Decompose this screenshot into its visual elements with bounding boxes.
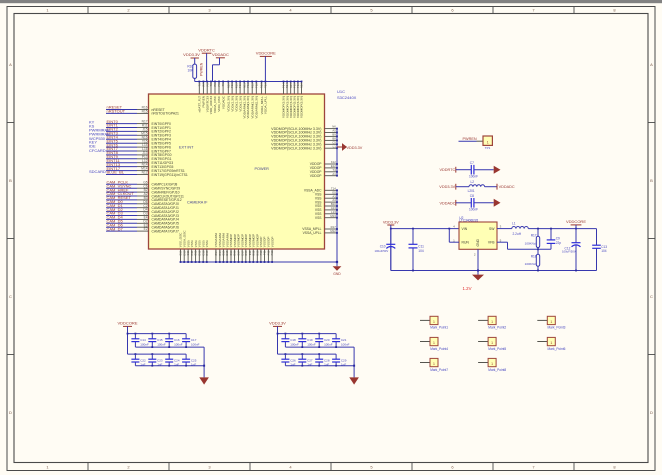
svg-text:GND: GND <box>476 238 480 246</box>
pin VSSiARM <box>218 233 222 263</box>
svg-text:10K: 10K <box>188 68 195 72</box>
pin VDDMOP(SCLK,100MHz 3.3V) <box>271 137 338 143</box>
power port VDDADC (top) <box>212 52 229 82</box>
testpoint TP1 <box>483 136 492 150</box>
pin 3 SW <box>489 225 512 231</box>
resistor R16 <box>187 64 196 81</box>
svg-text:VFB: VFB <box>488 241 495 245</box>
pin VDDMOP(3.3V) <box>296 81 300 118</box>
pin EINT11/GPG3 with net label EINT11 <box>106 158 173 165</box>
pin VSSMOP <box>233 234 237 263</box>
wire right VSS riser to ground bus <box>336 190 338 263</box>
pin EINT4/GPF4 with net label EINT4 <box>106 134 171 141</box>
svg-text:100KNcl: 100KNcl <box>525 241 537 245</box>
svg-text:VDD3.3V: VDD3.3V <box>183 52 200 57</box>
op regulator U2 LTC3406ES5 body <box>459 222 497 249</box>
svg-text:D: D <box>9 410 12 415</box>
pin VDDi(1.3V) <box>230 81 234 112</box>
pin VDDiARM(1.3V) <box>254 81 258 119</box>
power port VDDCORE (top) <box>256 50 276 81</box>
svg-text:CAM_D7: CAM_D7 <box>107 226 124 231</box>
pin VSSiARM <box>214 233 218 263</box>
svg-text:S3C2440X: S3C2440X <box>337 95 357 100</box>
wire VDD3.3V rail row1 top <box>277 333 337 335</box>
svg-text:RUN: RUN <box>462 241 470 245</box>
pin VSSMOP <box>237 234 241 263</box>
section label CAMERA IF <box>187 201 208 205</box>
capacitor C8 100nF <box>456 194 494 212</box>
pin VSS <box>315 202 338 208</box>
pin VSSi <box>186 240 190 263</box>
pin VSSMOP <box>240 234 244 263</box>
svg-text:1: 1 <box>487 141 489 145</box>
svg-text:VIN: VIN <box>462 227 468 231</box>
svg-text:VSS: VSS <box>315 216 322 220</box>
svg-text:N16: N16 <box>300 83 304 89</box>
svg-text:A1: A1 <box>332 172 336 176</box>
pin CAMPCLK/GPJ8 with net label CAM_PCLK <box>106 180 177 187</box>
svg-text:L201: L201 <box>468 189 475 193</box>
pin VDDi(1.3V) <box>226 81 230 112</box>
svg-text:100uF/50V: 100uF/50V <box>562 250 576 254</box>
svg-text:U1C: U1C <box>337 89 345 94</box>
pin VSSiARM <box>222 233 226 263</box>
pin VDDRTC33 <box>205 81 209 113</box>
fiducial Mark_Point8 <box>478 358 506 371</box>
net label PWREN (vertical) <box>199 62 203 76</box>
capacitor C29 1nF <box>332 354 347 367</box>
capacitor C12 100uF <box>562 229 580 271</box>
ground GND (chip) <box>333 262 342 276</box>
pin VDDA_UPLL <box>264 81 268 114</box>
svg-text:VDDCORE: VDDCORE <box>256 50 276 55</box>
pin EINT6/GPF6 with net label EINT6 <box>106 142 171 149</box>
power port VDD3.3V (top) <box>183 52 200 64</box>
pin EINT17/GPG9/nRTS1 with net label EINT17 <box>106 166 185 173</box>
svg-text:BLUE_BL: BLUE_BL <box>107 170 125 175</box>
pin EINT1/GPF1 with net label EINT1 <box>106 123 171 130</box>
pin CAMDATA2/GPJ2 with net label CAM_D2 <box>106 207 179 214</box>
pin EINT8/GPG0 with net label EINT8 <box>106 150 172 157</box>
pin VSS_OSC <box>179 232 183 263</box>
ground (regulator) <box>472 271 484 281</box>
pin VDDA_MPLL <box>260 81 264 115</box>
pin EINT9/GPG1 with net label EINT9 <box>106 154 172 161</box>
pin CAMHREF/GPJ10 with net label CAM_HREF <box>106 187 180 194</box>
svg-text:M12: M12 <box>330 229 336 233</box>
svg-text:N12: N12 <box>142 171 148 175</box>
svg-text:Mark_Point4: Mark_Point4 <box>430 347 448 351</box>
capacitor C25 1nF <box>182 354 197 367</box>
wire regulator input rail <box>390 228 459 230</box>
svg-text:1: 1 <box>491 320 493 324</box>
capacitor C11 104 <box>409 229 425 271</box>
pin nRSTOUT/GPA21 with net label nRSTOUT <box>106 109 179 116</box>
capacitor C15 100nF <box>148 334 166 348</box>
svg-text:VDDRTC: VDDRTC <box>440 168 456 172</box>
svg-text:VDDADC: VDDADC <box>221 95 225 109</box>
power port VDD3.3V (cap bank) <box>269 321 286 355</box>
pin VSSi <box>194 240 198 263</box>
svg-text:VDDMOP(3.3V): VDDMOP(3.3V) <box>300 96 304 118</box>
fiducial Mark_Point5 <box>478 337 506 350</box>
window top bar <box>0 0 662 3</box>
fiducial Mark_Point1 <box>420 316 448 329</box>
svg-text:VSSOP: VSSOP <box>270 237 274 248</box>
pin CAMDATA3/GPJ3 with net label CAM_D3 <box>106 211 179 218</box>
fiducial Mark_Point4 <box>420 337 448 350</box>
svg-text:100nF: 100nF <box>140 342 149 346</box>
pin 4 VIN <box>453 225 468 231</box>
designator U2 <box>459 216 463 220</box>
pin VSSA_ADC <box>304 186 338 192</box>
pin EINT13/GPG5 with net label EINT13 <box>106 162 173 169</box>
pin EINT3/GPF3 with net label EINT3 <box>106 131 171 138</box>
svg-text:CFCARD: CFCARD <box>89 148 106 153</box>
svg-text:VDDCORE: VDDCORE <box>566 219 586 224</box>
pin VSSA_MPLL <box>302 225 338 231</box>
pin VSS <box>315 190 338 196</box>
pin VSSOP <box>267 237 271 263</box>
power arrow VDDRTC rail <box>494 166 501 174</box>
wire regulator ground rail <box>391 270 597 272</box>
pin VDDi(1.3V) <box>234 81 238 112</box>
capacitor C7 100nF <box>456 161 494 179</box>
power port VDDRTC (left of C7) <box>440 167 456 173</box>
pin VSSA_OSC <box>182 230 186 263</box>
capacitor C26 1nF <box>281 354 296 367</box>
fiducial Mark_Point3 <box>537 316 565 329</box>
pin VDDMOP(3.3V) <box>300 81 304 118</box>
pin VDDMOP(3.3V) <box>292 81 296 118</box>
part number LTC3406ES5 <box>459 219 478 223</box>
pin CAMDATA1/GPJ1 with net label CAM_D1 <box>106 203 179 210</box>
svg-text:T12: T12 <box>254 83 258 88</box>
svg-text:VDDADC: VDDADC <box>212 52 229 57</box>
svg-text:PWREN: PWREN <box>463 137 477 141</box>
svg-text:VDDA_UPLL: VDDA_UPLL <box>264 96 268 114</box>
pin VDDiARM(1.3V) <box>242 81 246 119</box>
wire row1 bottom to ground corner <box>135 346 204 366</box>
pin VDDiARM(1.3V) <box>250 81 254 119</box>
svg-text:Mark_Point8: Mark_Point8 <box>488 368 506 372</box>
svg-text:VDD3.3V: VDD3.3V <box>347 146 363 150</box>
svg-text:L1: L1 <box>512 221 516 225</box>
power port VDD3.3V (right arrow) <box>337 143 363 151</box>
svg-text:100nF: 100nF <box>290 342 299 346</box>
svg-text:22p: 22p <box>556 241 562 245</box>
pin EINT2/GPF2 with net label EINT2 <box>106 127 171 134</box>
pin VSSi <box>205 240 209 263</box>
pin VDDMOP(SCLK,100MHz 3.3V) <box>271 144 338 150</box>
inductor L1 2.2uH <box>512 221 528 236</box>
svg-text:L1: L1 <box>333 144 337 148</box>
ground (cap bank) <box>199 377 209 384</box>
wire regulator left vertical <box>390 229 392 271</box>
svg-text:B: B <box>650 178 653 183</box>
pin VDDMOP(3.3V) <box>282 81 286 118</box>
fiducial Mark_Point7 <box>420 358 448 371</box>
svg-text:Mark_Point7: Mark_Point7 <box>430 368 448 372</box>
svg-text:1: 1 <box>491 341 493 345</box>
svg-text:VDDOP: VDDOP <box>310 174 323 178</box>
fiducial Mark_Point6 <box>537 337 565 350</box>
capacitor C27 1nF <box>298 354 313 367</box>
capacitor C21 100nF <box>332 334 350 348</box>
pin nBATT_FLT <box>197 81 201 113</box>
svg-text:VDD3.3V: VDD3.3V <box>383 220 399 224</box>
svg-text:C: C <box>650 294 653 299</box>
pin 2 GND <box>474 238 480 270</box>
capacitor C22 1nF <box>131 354 146 367</box>
pin CAMDATA0/GPJ0 with net label CAM_D0 <box>106 199 179 206</box>
pin VSSi <box>197 240 201 263</box>
pin CAMDATA6/GPJ6 with net label CAM_D6 <box>106 222 179 229</box>
pin VDDMOP(3.3V) <box>285 81 289 118</box>
pin VSSOP <box>270 237 274 263</box>
pin VSS <box>315 214 338 220</box>
pin VSSMOP <box>255 234 259 263</box>
wire rail row2 top <box>278 353 337 355</box>
section label EXT INT <box>179 146 194 150</box>
svg-text:E2: E2 <box>144 227 148 231</box>
pin VDDMOP(SCLK,100MHz 3.3V) <box>271 129 338 135</box>
svg-text:L2: L2 <box>471 180 475 184</box>
capacitor C20 100nF <box>315 334 333 348</box>
svg-text:VDD3.3V: VDD3.3V <box>439 185 455 189</box>
svg-text:1: 1 <box>550 341 552 345</box>
power port VDD3.3V (regulator input) <box>383 220 399 228</box>
fiducial Mark_Point2 <box>478 316 506 329</box>
pin VSS <box>315 206 338 212</box>
svg-text:100nF: 100nF <box>324 342 333 346</box>
svg-text:2.2uH: 2.2uH <box>513 232 522 236</box>
pin VDDMOP(SCLK,100MHz 3.3V) <box>271 125 338 131</box>
power arrow VDDADC rail <box>494 199 501 207</box>
svg-text:1: 1 <box>433 362 435 366</box>
resistor R17 100K <box>525 229 540 251</box>
pin EINT19(GPG11)/nCTS1 with net label BLUE_BL <box>106 170 188 177</box>
svg-text:R18: R18 <box>531 254 537 258</box>
svg-text:1: 1 <box>433 320 435 324</box>
svg-text:C7: C7 <box>470 161 474 165</box>
pin VDDOP <box>310 172 338 178</box>
capacitor C14 100nF <box>131 334 149 348</box>
svg-text:Mark_Point3: Mark_Point3 <box>548 326 566 330</box>
pin CAMDATA4/GPJ4 with net label CAM_D4 <box>106 215 179 222</box>
pin VDDMOP(SCLK,100MHz 3.3V) <box>271 140 338 146</box>
left side comment texts <box>89 119 110 174</box>
inductor L2 <box>456 180 497 193</box>
pin VSSOP <box>259 237 263 263</box>
svg-text:LTC3406ES5: LTC3406ES5 <box>459 219 478 223</box>
pin VSS <box>315 194 338 200</box>
svg-text:F13: F13 <box>270 250 274 255</box>
svg-text:R15: R15 <box>142 110 148 114</box>
capacitor C24 1nF <box>165 354 180 367</box>
svg-text:A: A <box>650 62 653 67</box>
svg-text:VSSA_UPLL: VSSA_UPLL <box>303 231 322 235</box>
svg-text:CAMDATA7/GPJ7: CAMDATA7/GPJ7 <box>152 229 179 233</box>
svg-text:1: 1 <box>491 362 493 366</box>
pin VSSMOP <box>251 234 255 263</box>
svg-text:Mark_Point6: Mark_Point6 <box>548 347 566 351</box>
svg-text:SW: SW <box>489 227 495 231</box>
ground (cap bank) <box>349 377 359 384</box>
svg-text:1: 1 <box>433 341 435 345</box>
section label POWER <box>255 167 270 171</box>
pin VSSMOP <box>229 234 233 263</box>
pin 5 VFB <box>488 238 551 249</box>
svg-text:100nF: 100nF <box>191 342 200 346</box>
wire row2 bottom rail <box>285 365 355 378</box>
pin VDDOP <box>310 164 338 170</box>
pin CAMDATA7/GPJ7 with net label CAM_D7 <box>106 226 179 233</box>
svg-text:VDDiARM(1.3V): VDDiARM(1.3V) <box>255 96 259 119</box>
power port VDDCORE (cap bank) <box>117 321 137 355</box>
svg-text:100uF/50V: 100uF/50V <box>375 249 389 253</box>
svg-text:R17: R17 <box>531 233 537 237</box>
pin EINT5/GPF5 with net label EINT5 <box>106 138 171 145</box>
pin VSS <box>315 210 338 216</box>
svg-text:GND: GND <box>333 272 341 276</box>
svg-text:100nF: 100nF <box>157 342 166 346</box>
svg-text:TP1: TP1 <box>485 146 491 150</box>
pin VDDiARM(1.3V) <box>246 81 250 119</box>
svg-text:T13: T13 <box>264 83 268 88</box>
part number S3C2440X <box>337 95 357 100</box>
wire bottom ground bus <box>181 261 338 263</box>
capacitor C17 100nF <box>182 334 200 348</box>
capacitor C19 100nF <box>298 334 316 348</box>
svg-text:VDDADC: VDDADC <box>499 185 515 189</box>
pin VDDi(1.3V) <box>238 81 242 112</box>
pin VDDA_OSC <box>213 81 217 113</box>
svg-text:1: 1 <box>550 320 552 324</box>
pin VDDMOP(SCLK,100MHz 3.3V) <box>271 133 338 139</box>
svg-text:PWREN: PWREN <box>199 62 203 76</box>
pin VDDMOP(3.3V) <box>289 81 293 118</box>
wire row1 bottom to ground corner <box>285 346 354 366</box>
svg-text:VDDCORE: VDDCORE <box>117 321 137 326</box>
power port VDDCORE (regulator output) <box>566 219 586 229</box>
svg-text:SDCARD: SDCARD <box>89 169 106 174</box>
power port VDDRTC (top) <box>198 47 215 81</box>
capacitor C10 100uF/50V <box>375 229 396 271</box>
svg-text:100nF: 100nF <box>469 175 478 179</box>
svg-text:C9: C9 <box>556 236 560 240</box>
pin VSSA_UPLL <box>303 229 338 235</box>
svg-text:B: B <box>9 178 12 183</box>
wire regulator output rail <box>528 228 596 230</box>
svg-text:104: 104 <box>601 249 607 253</box>
svg-text:A: A <box>9 62 12 67</box>
svg-text:100nF: 100nF <box>341 342 350 346</box>
net label PWREN (testpoint) <box>459 137 484 141</box>
svg-text:VDDMOP(SCLK,100MHz 3.3V): VDDMOP(SCLK,100MHz 3.3V) <box>271 146 321 150</box>
wire rail row2 top <box>128 353 187 355</box>
pin CAMCLKOUT/GPJ11 with net label CAM_CLKOUT <box>106 191 184 198</box>
capacitor C28 1nF <box>315 354 330 367</box>
pin VSSiARM <box>225 233 229 263</box>
wire right VDD3.3V bus <box>336 129 338 176</box>
pin EINT0/GPF0 with net label EINT0 <box>106 119 171 126</box>
svg-text:nRSTOUT/GPA21: nRSTOUT/GPA21 <box>152 112 179 116</box>
power port VDDADC (right of L2) <box>497 184 515 190</box>
svg-text:VSSi: VSSi <box>205 240 209 247</box>
svg-text:C10: C10 <box>380 245 386 249</box>
capacitor C23 1nF <box>148 354 163 367</box>
svg-text:POWER: POWER <box>255 167 270 171</box>
capacitor C18 100nF <box>281 334 299 348</box>
svg-text:nRSTOUT: nRSTOUT <box>107 109 126 114</box>
pin nRESET with net label nRESET <box>106 105 165 112</box>
net label 1.2V <box>462 286 471 291</box>
svg-text:CAMERA IF: CAMERA IF <box>187 201 208 205</box>
pin VSSi <box>190 240 194 263</box>
svg-text:100nF: 100nF <box>174 342 183 346</box>
svg-text:M13: M13 <box>330 214 336 218</box>
pin VSSOP <box>263 237 267 263</box>
power port VDD3.3V (left of L2) <box>439 184 456 190</box>
svg-text:Mark_Point2: Mark_Point2 <box>488 326 506 330</box>
wire row2 bottom rail <box>135 365 205 378</box>
pin VSSi <box>201 240 205 263</box>
pin VDD_ADC33 <box>209 81 213 115</box>
pin VSSMOP <box>248 234 252 263</box>
IC U1 S3C2440X body <box>149 94 325 249</box>
svg-text:D: D <box>650 410 653 415</box>
pin VDDi_OSC <box>217 81 221 112</box>
capacitor C13 104 <box>592 229 607 271</box>
svg-text:100nF: 100nF <box>307 342 316 346</box>
capacitor C9 22p <box>547 229 562 250</box>
svg-text:104: 104 <box>418 249 424 253</box>
svg-text:100KNcl: 100KNcl <box>525 262 537 266</box>
svg-text:T9: T9 <box>221 83 225 87</box>
svg-text:VDD3.3V: VDD3.3V <box>269 321 286 326</box>
pin 1 RUN <box>449 229 469 245</box>
pin EINT7/GPF7 with net label EINT7 <box>106 146 171 153</box>
pin VDDADC <box>221 81 225 109</box>
pin CAMDATA5/GPJ5 with net label CAM_D5 <box>106 219 179 226</box>
resistor R18 100K <box>525 249 540 270</box>
pin CAMRESET/GPJ12 with net label CAM_RESET <box>106 195 182 202</box>
pin VSSMOP <box>244 234 248 263</box>
capacitor C16 100nF <box>165 334 183 348</box>
wire VDDCORE rail row1 top <box>127 333 187 335</box>
svg-text:Mark_Point1: Mark_Point1 <box>430 326 448 330</box>
svg-text:VDDADC: VDDADC <box>440 201 456 205</box>
pin VDDOP <box>310 160 338 166</box>
svg-text:100nF: 100nF <box>469 208 478 212</box>
svg-text:D13: D13 <box>205 250 209 256</box>
pin CAMVSYNC/GPJ9 with net label CAM_VSYNC <box>106 183 180 190</box>
pin PWREN <box>202 81 206 108</box>
designator U1C <box>337 89 345 94</box>
svg-text:C8: C8 <box>470 194 474 198</box>
svg-text:1.2V: 1.2V <box>462 286 471 291</box>
wire top power bus <box>195 81 302 83</box>
pin VSS <box>315 198 338 204</box>
svg-text:C: C <box>9 294 12 299</box>
pin VDDOP <box>310 168 338 174</box>
svg-text:EXT INT: EXT INT <box>179 146 194 150</box>
svg-text:EINT19(GPG11)/nCTS1: EINT19(GPG11)/nCTS1 <box>152 173 188 177</box>
svg-text:Mark_Point5: Mark_Point5 <box>488 347 506 351</box>
power port VDDADC (left of C8) <box>440 200 456 206</box>
